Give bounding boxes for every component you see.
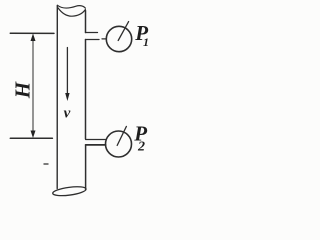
svg-text:v: v	[64, 106, 71, 122]
svg-text:H: H	[10, 81, 34, 99]
svg-text:1: 1	[143, 35, 149, 49]
svg-text:2: 2	[137, 140, 145, 155]
